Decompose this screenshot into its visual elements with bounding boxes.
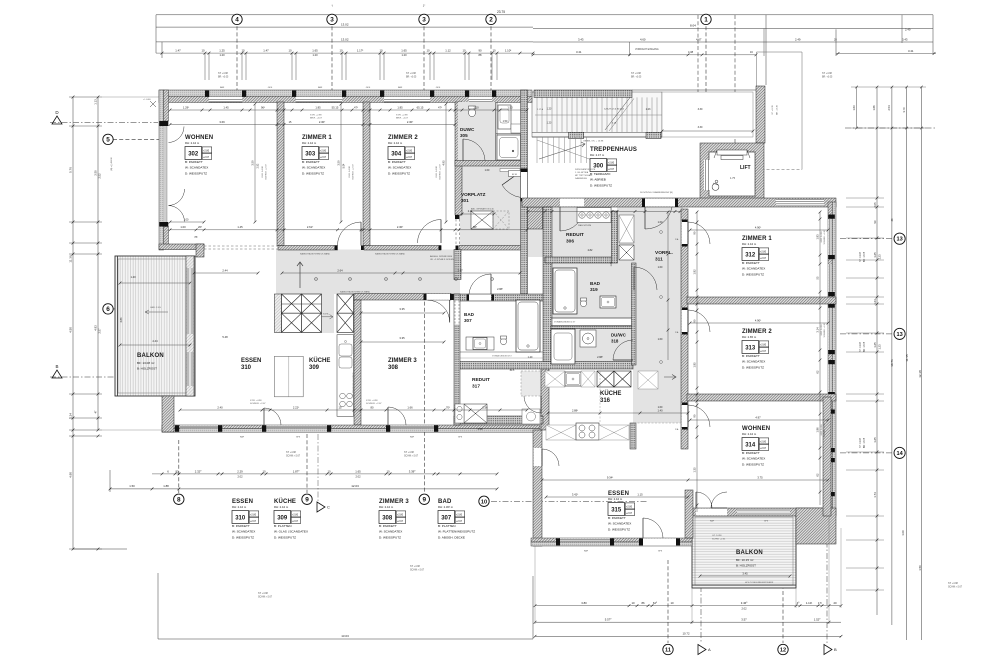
svg-text:5.76: 5.76 — [69, 167, 73, 173]
svg-text:13: 13 — [896, 237, 902, 243]
svg-text:+2.80: +2.80 — [626, 505, 633, 508]
reduit 306 gray zone — [528, 207, 612, 257]
svg-text:3.30: 3.30 — [698, 126, 703, 129]
cluster v-wall 306-vorpl311 — [612, 211, 618, 263]
kitchen 316 island with stove — [546, 425, 576, 440]
svg-text:1.10¹: 1.10¹ — [806, 601, 812, 605]
svg-text:11.36: 11.36 — [69, 255, 73, 263]
svg-text:1.50: 1.50 — [503, 120, 508, 123]
svg-text:8: 8 — [177, 497, 181, 504]
svg-text:D: WEISSPUTZ: D: WEISSPUTZ — [608, 527, 630, 531]
svg-text:3.46º: 3.46º — [741, 601, 747, 605]
svg-text:1.82: 1.82 — [693, 269, 697, 275]
svg-text:GER: 1.5%: GER: 1.5% — [150, 307, 161, 309]
svg-text:12.03: 12.03 — [351, 484, 359, 488]
essen 315 dims — [546, 496, 688, 498]
svg-text:17¹: 17¹ — [818, 601, 822, 605]
reduit 317 shelf — [464, 404, 487, 423]
door jamb black caps — [335, 246, 338, 251]
svg-text:SCHW.R. +2.67: SCHW.R. +2.67 — [250, 403, 266, 405]
svg-text:W: SCANDATEX: W: SCANDATEX — [185, 166, 208, 170]
door arc essen315 west — [542, 449, 559, 466]
svg-text:HOLZ-DIELENBLENDWERK: HOLZ-DIELENBLENDWERK — [745, 582, 774, 584]
svg-text:9: 9 — [305, 497, 309, 504]
treppenhaus east wall — [756, 86, 765, 143]
svg-text:LIFT: LIFT — [740, 165, 751, 171]
svg-text:10: 10 — [379, 49, 383, 53]
cluster h-wall duwc-kueche316 — [458, 362, 633, 370]
washer boxes reduit 317 — [522, 409, 540, 424]
svg-text:2.88º: 2.88º — [597, 355, 603, 359]
svg-text:ST: +4.98: ST: +4.98 — [631, 73, 641, 75]
svg-text:D: WEISSPUTZ: D: WEISSPUTZ — [742, 462, 764, 466]
svg-text:ESSEN: ESSEN — [241, 358, 261, 364]
svg-text:2.44: 2.44 — [152, 339, 158, 343]
svg-text:1.50: 1.50 — [129, 484, 135, 488]
svg-text:ST. +9.30: ST. +9.30 — [772, 105, 774, 115]
svg-text:MIT TRITTSCHALL: MIT TRITTSCHALL — [575, 174, 593, 177]
svg-text:D: WEISSPUTZ: D: WEISSPUTZ — [742, 272, 764, 276]
svg-text:12: 12 — [780, 648, 786, 654]
svg-text:2.30º: 2.30º — [319, 120, 325, 124]
svg-text:309: 309 — [309, 365, 320, 371]
svg-text:+2.80: +2.80 — [760, 343, 767, 346]
svg-text:13.02: 13.02 — [341, 37, 349, 41]
svg-text:4.67: 4.67 — [696, 37, 702, 41]
svg-text:10: 10 — [262, 469, 266, 473]
svg-text:ZIMMER 1: ZIMMER 1 — [302, 135, 332, 141]
svg-text:11.15: 11.15 — [905, 354, 909, 362]
svg-text:90: 90 — [478, 49, 482, 53]
svg-text:10.72: 10.72 — [683, 632, 690, 636]
top dimension frame — [156, 14, 933, 16]
svg-text:ST: +4.98: ST: +4.98 — [258, 593, 268, 595]
svg-text:RH: 2.44 m: RH: 2.44 m — [185, 141, 200, 145]
kitchen nook gray zone 309 — [276, 250, 334, 334]
west wall main block — [159, 90, 164, 250]
svg-text:1.85: 1.85 — [397, 105, 403, 109]
svg-text:BAD: BAD — [464, 312, 475, 317]
shower duwc 318 — [580, 330, 596, 347]
svg-text:1.13: 1.13 — [94, 99, 98, 105]
svg-text:D: WEISSPUTZ: D: WEISSPUTZ — [232, 535, 254, 539]
svg-text:1.82: 1.82 — [610, 261, 613, 266]
svg-text:314: 314 — [745, 442, 756, 448]
svg-text:D: WEISSPUTZ: D: WEISSPUTZ — [388, 171, 410, 175]
svg-text:BR: +3.05: BR: +3.05 — [218, 77, 229, 79]
svg-text:↑: ↑ — [331, 3, 333, 8]
svg-text:61.R. 14.98: 61.R. 14.98 — [349, 166, 351, 178]
treppenhaus west wall — [521, 90, 528, 294]
svg-text:1.40: 1.40 — [657, 408, 663, 412]
svg-text:3.80: 3.80 — [581, 601, 587, 605]
svg-text:SCHW: +2.67: SCHW: +2.67 — [948, 587, 963, 589]
svg-text:+2.67: +2.67 — [292, 520, 299, 523]
section marker B left — [52, 370, 62, 378]
svg-text:26º: 26º — [198, 225, 202, 229]
double balcony door wohnen 314 — [696, 492, 712, 508]
x-box corridor end 311 — [619, 245, 634, 260]
svg-text:BR.R. +2.07: BR.R. +2.07 — [396, 118, 409, 120]
door arcs right wing rooms — [688, 222, 710, 244]
svg-text:ZIMMER 2: ZIMMER 2 — [388, 135, 418, 141]
reduit 317 wardrobe gray strip — [521, 371, 541, 396]
duwc 305 partition line — [495, 102, 497, 161]
south wall wohnen 314 — [688, 508, 829, 516]
svg-text:1.88: 1.88 — [163, 484, 169, 488]
duwc 305 door arc — [462, 139, 464, 161]
svg-text:BR: +3.05: BR: +3.05 — [406, 77, 417, 79]
svg-text:2.82: 2.82 — [588, 249, 593, 252]
svg-text:10: 10 — [288, 49, 292, 53]
svg-text:RH: 2.44 m: RH: 2.44 m — [274, 505, 289, 509]
svg-text:61.R. 14.98: 61.R. 14.98 — [262, 166, 264, 178]
svg-text:ZIMMER 1: ZIMMER 1 — [742, 236, 772, 242]
svg-text:47º: 47º — [438, 105, 442, 109]
svg-text:10: 10 — [241, 49, 245, 53]
svg-text:+2.67: +2.67 — [456, 520, 463, 523]
second dashed axis near grid 1 — [734, 15, 736, 144]
svg-text:1.83: 1.83 — [816, 234, 820, 240]
svg-text:13: 13 — [896, 332, 902, 338]
svg-text:55.15: 55.15 — [332, 105, 339, 109]
svg-text:B: PARKETT: B: PARKETT — [742, 261, 760, 265]
svg-text:4.93: 4.93 — [94, 325, 98, 331]
svg-text:86: 86 — [641, 601, 645, 605]
east wall right wing — [828, 202, 832, 516]
svg-text:61.R. 14.98: 61.R. 14.98 — [821, 231, 823, 243]
svg-text:KABELTRAGSYSTEM UK WAND: KABELTRAGSYSTEM UK WAND — [375, 253, 406, 256]
north wall main block — [159, 90, 532, 96]
svg-text:1.23: 1.23 — [878, 344, 882, 350]
svg-text:+2.80: +2.80 — [456, 513, 463, 516]
svg-text:ST.R. +4.98: ST.R. +4.98 — [366, 400, 378, 402]
grid circle 6 — [113, 308, 190, 310]
svg-text:1.60: 1.60 — [658, 266, 663, 269]
svg-text:61.R. 14.98: 61.R. 14.98 — [821, 424, 823, 436]
corridor-cluster stub wall — [454, 250, 461, 280]
svg-text:W: SCANDATEX: W: SCANDATEX — [742, 360, 765, 364]
svg-text:+/- 0.00: +/- 0.00 — [143, 99, 151, 101]
svg-text:1.85: 1.85 — [315, 105, 321, 109]
svg-text:4.90º: 4.90º — [755, 318, 761, 322]
essen 315 south wall — [531, 538, 692, 542]
bathtub bad 319 — [553, 268, 577, 314]
door arc zimmer3 north — [449, 300, 451, 322]
svg-text:RAF: RAF — [220, 86, 225, 89]
svg-text:GFS: GFS — [366, 87, 371, 89]
svg-text:123.27 cm 4 St 3.24: 123.27 cm 4 St 3.24 — [604, 108, 624, 111]
svg-text:GFS: GFS — [658, 551, 663, 553]
wall kueche-zimmer3 — [354, 300, 361, 425]
door arc essen south — [264, 408, 281, 425]
svg-text:1.45: 1.45 — [223, 105, 229, 109]
svg-text:KABELTRAGSYSTEM UK WAND: KABELTRAGSYSTEM UK WAND — [340, 291, 371, 294]
svg-text:ZIMMER 3: ZIMMER 3 — [379, 499, 409, 505]
svg-text:KÜ/TA: KÜ/TA — [323, 313, 329, 316]
svg-text:1.47: 1.47 — [175, 49, 181, 53]
svg-text:1.60: 1.60 — [658, 338, 663, 341]
section marker C bottom — [317, 502, 325, 512]
svg-text:B: PARKETT: B: PARKETT — [388, 160, 406, 164]
svg-text:B: PARKETT: B: PARKETT — [742, 354, 760, 358]
svg-text:4.90º: 4.90º — [755, 225, 761, 229]
svg-text:B: HOLZROST: B: HOLZROST — [736, 564, 756, 568]
svg-text:DICHTUNG / BRANDRIEGNZ (B): DICHTUNG / BRANDRIEGNZ (B) — [640, 191, 673, 194]
svg-text:KABELTRAGSYSTEM UK WAND: KABELTRAGSYSTEM UK WAND — [300, 253, 331, 256]
svg-text:GFS: GFS — [296, 437, 301, 439]
svg-text:RH: 2.44 m: RH: 2.44 m — [302, 141, 317, 145]
svg-text:3: 3 — [422, 17, 426, 24]
svg-text:1.65: 1.65 — [873, 252, 877, 258]
svg-text:2.61º: 2.61º — [307, 225, 313, 229]
duwc 305 vanity — [498, 105, 511, 129]
balcony upper left deck — [115, 256, 195, 396]
svg-text:61.R. 14.98: 61.R. 14.98 — [436, 166, 438, 178]
svg-text:ZWISCHENPODESTE: ZWISCHENPODESTE — [575, 169, 596, 171]
svg-text:2.30º: 2.30º — [407, 120, 413, 124]
svg-text:4.38: 4.38 — [688, 50, 694, 54]
svg-text:1.87º: 1.87º — [293, 469, 299, 473]
svg-text:+2.80: +2.80 — [292, 513, 299, 516]
svg-text:14: 14 — [896, 451, 903, 457]
svg-text:317: 317 — [472, 384, 480, 390]
svg-text:3.45: 3.45 — [742, 571, 748, 575]
svg-text:5: 5 — [106, 137, 110, 144]
svg-text:BALKON: BALKON — [736, 550, 763, 556]
kitchen 309 cooktop — [340, 393, 346, 399]
svg-text:96º: 96º — [261, 105, 265, 109]
svg-text:3.43: 3.43 — [902, 37, 908, 41]
corridor dim line with sockets — [282, 272, 520, 274]
svg-text:10: 10 — [481, 499, 487, 505]
svg-text:W: SCANDATEX: W: SCANDATEX — [302, 166, 325, 170]
svg-text:BR. +9.30: BR. +9.30 — [777, 104, 779, 115]
svg-text:D: WEISSPUTZ: D: WEISSPUTZ — [274, 535, 296, 539]
svg-text:3.39º: 3.39º — [409, 469, 415, 473]
svg-text:(B) +(-) W106: (B) +(-) W106 — [111, 157, 113, 171]
svg-text:W: ABRIEB: W: ABRIEB — [590, 178, 606, 182]
svg-text:HOLZTRAEGER UK WAND: HOLZTRAEGER UK WAND — [352, 372, 355, 397]
kitchen 309 sink — [339, 344, 352, 356]
svg-text:DU/WC: DU/WC — [611, 333, 627, 338]
svg-text:3.70: 3.70 — [902, 107, 906, 113]
svg-text:+2.67: +2.67 — [203, 156, 210, 159]
svg-text:3.69: 3.69 — [219, 120, 225, 124]
svg-text:312: 312 — [745, 252, 756, 258]
svg-text:WASCHTURM: WASCHTURM — [578, 224, 591, 227]
svg-text:2.22º: 2.22º — [293, 405, 299, 409]
dashed kitchen boundary lines 316 — [599, 371, 601, 423]
svg-text:10: 10 — [339, 49, 343, 53]
svg-text:VORPL.: VORPL. — [655, 250, 673, 256]
svg-text:BALKON: BALKON — [137, 353, 164, 359]
svg-text:VORABKLEBUNG 4 KT: VORABKLEBUNG 4 KT — [554, 321, 576, 324]
svg-text:1.60: 1.60 — [658, 221, 663, 224]
zimmer3 north wall — [354, 294, 451, 301]
svg-text:318: 318 — [611, 339, 619, 344]
svg-text:1.17³: 1.17³ — [357, 49, 363, 53]
svg-text:RH: 2.44 m: RH: 2.44 m — [232, 505, 247, 509]
svg-text:1.12: 1.12 — [445, 49, 451, 53]
svg-text:1.25: 1.25 — [219, 49, 225, 53]
section marker D left — [52, 116, 62, 124]
svg-text:W: SCANDATEX: W: SCANDATEX — [379, 530, 402, 534]
door arc treppenhaus to corridor — [560, 207, 584, 231]
svg-text:4: 4 — [235, 17, 239, 24]
left dimension frame — [72, 97, 74, 549]
svg-text:BR: 13.65: BR: 13.65 — [864, 437, 866, 448]
svg-text:70º: 70º — [446, 405, 450, 409]
svg-text:2.54: 2.54 — [887, 105, 891, 111]
svg-text:W: SCANDATEX: W: SCANDATEX — [232, 530, 255, 534]
svg-text:SCHW.K. +2.07: SCHW.K. +2.07 — [352, 164, 354, 180]
svg-text:4.97: 4.97 — [755, 415, 761, 419]
svg-text:TREPPENHAUS: TREPPENHAUS — [590, 147, 637, 153]
svg-text:5.57º: 5.57º — [605, 618, 611, 622]
svg-text:D: WEISSPUTZ: D: WEISSPUTZ — [302, 171, 324, 175]
svg-text:BR: +3.05: BR: +3.05 — [822, 77, 833, 79]
svg-text:1.66: 1.66 — [872, 105, 876, 111]
svg-text:4.90: 4.90 — [69, 472, 73, 478]
svg-text:GT: 14.98: GT: 14.98 — [712, 535, 722, 537]
svg-text:3.41: 3.41 — [908, 49, 914, 53]
svg-text:9.34º: 9.34º — [607, 475, 613, 479]
svg-text:1.00: 1.00 — [901, 530, 905, 536]
right wing interior dims — [696, 212, 698, 512]
svg-text:10.71: 10.71 — [890, 359, 894, 367]
svg-text:KÜCHE: KÜCHE — [309, 357, 330, 364]
svg-text:+2.67: +2.67 — [608, 168, 615, 171]
svg-text:BR.R. +2.07: BR.R. +2.07 — [310, 118, 323, 120]
svg-text:6: 6 — [106, 306, 110, 313]
svg-text:2.49: 2.49 — [905, 28, 911, 32]
svg-text:KÜCHE: KÜCHE — [600, 390, 621, 397]
cluster bottom wall reduit317 — [454, 416, 543, 424]
door arc vorpl to bad319 — [634, 267, 657, 290]
svg-text:GFS: GFS — [458, 437, 463, 439]
svg-text:REDUIT: REDUIT — [566, 232, 584, 238]
grid circles 13 13 14 right — [840, 238, 893, 240]
svg-text:1.29º: 1.29º — [183, 105, 189, 109]
svg-text:80: 80 — [371, 405, 374, 409]
svg-text:10: 10 — [201, 49, 205, 53]
svg-text:RH: 2.44 m: RH: 2.44 m — [742, 432, 757, 436]
svg-text:+2.67: +2.67 — [397, 520, 404, 523]
vorplatz 301 gray zone — [460, 166, 527, 246]
svg-text:SCHW: +2.67: SCHW: +2.67 — [410, 570, 425, 572]
svg-text:1: 1 — [704, 17, 708, 24]
svg-text:1.10³: 1.10³ — [505, 49, 511, 53]
cluster v-wall 319-vorpl311 — [632, 263, 637, 365]
svg-text:A: A — [708, 647, 711, 652]
wardrobe x-box corridor 311 south — [638, 371, 658, 389]
svg-text:2.05: 2.05 — [873, 202, 877, 208]
svg-text:B: B — [834, 647, 837, 652]
stair landing white — [662, 92, 753, 137]
washing machines reduit 306 — [577, 208, 611, 223]
svg-text:+2.80: +2.80 — [203, 149, 210, 152]
svg-text:2.29: 2.29 — [237, 469, 243, 473]
svg-text:2.64: 2.64 — [337, 268, 343, 272]
dashed axis x698 — [697, 15, 699, 92]
svg-text:1.64: 1.64 — [873, 299, 877, 305]
svg-text:ST.R. +4.98: ST.R. +4.98 — [250, 400, 262, 402]
duwc 305 south wall — [455, 161, 521, 167]
svg-text:1.23: 1.23 — [878, 254, 882, 260]
svg-text:11: 11 — [665, 648, 671, 654]
bottom-left frame corner — [157, 573, 159, 639]
fixture small sink vorplatz — [500, 169, 520, 172]
svg-text:1.74: 1.74 — [873, 492, 877, 498]
svg-text:3.50: 3.50 — [251, 160, 255, 166]
grid circle 5 — [113, 138, 160, 140]
svg-text:2: 2 — [489, 17, 493, 24]
svg-text:2.02: 2.02 — [237, 475, 243, 479]
svg-text:13.02: 13.02 — [341, 23, 349, 27]
interior dim left wing lower — [180, 409, 527, 411]
south wall wohnen — [159, 244, 204, 250]
zimmer 2 313 dim — [690, 322, 828, 324]
zimmer 1 312 dim — [690, 229, 828, 231]
svg-text:1.66: 1.66 — [407, 405, 413, 409]
double door arc west wall — [169, 189, 185, 206]
svg-text:315: 315 — [611, 507, 622, 513]
svg-text:ST: +4.98: ST: +4.98 — [286, 452, 296, 454]
svg-text:VORABKLEBUNG 4KT: VORABKLEBUNG 4KT — [492, 355, 512, 358]
svg-text:304: 304 — [391, 151, 402, 157]
svg-text:1.20: 1.20 — [219, 53, 225, 57]
cluster h-wall bad319-duwc318 — [551, 317, 633, 319]
svg-text:UK +2.30³ AB F. BODEN: UK +2.30³ AB F. BODEN — [430, 258, 454, 261]
wall zimmer1-zimmer2 right wing — [687, 297, 836, 304]
svg-text:W: SCANDATEX: W: SCANDATEX — [742, 457, 765, 461]
svg-text:1.23: 1.23 — [646, 108, 651, 111]
svg-text:10: 10 — [492, 49, 496, 53]
svg-text:10: 10 — [426, 49, 430, 53]
svg-text:ST: +4.98: ST: +4.98 — [410, 566, 420, 568]
svg-text:47º: 47º — [354, 105, 358, 109]
essen 310 table — [274, 356, 303, 397]
svg-text:1.65: 1.65 — [401, 49, 407, 53]
svg-text:12.18: 12.18 — [918, 370, 922, 378]
svg-text:+2.67: +2.67 — [760, 350, 767, 353]
cluster h-wall corridor-bad307 — [454, 294, 545, 301]
svg-text:1. UG: ATTIKA: 1. UG: ATTIKA — [575, 171, 589, 174]
bathtub bad 307 — [516, 300, 540, 352]
wheelchair symbol lift — [712, 184, 719, 191]
in-room vertical dim columns top rooms — [254, 104, 256, 222]
svg-text:ST: +4.98: ST: +4.98 — [218, 73, 228, 75]
svg-text:2.52: 2.52 — [98, 173, 102, 179]
svg-text:B: PARKETT: B: PARKETT — [608, 516, 626, 520]
svg-text:B: PLATTEN: B: PLATTEN — [438, 524, 455, 528]
svg-text:319: 319 — [590, 287, 598, 292]
plusminus marker — [150, 101, 156, 107]
svg-text:RAF: RAF — [318, 86, 323, 89]
west wall lower corner — [162, 396, 174, 432]
svg-text:1.45: 1.45 — [237, 225, 243, 229]
dash-dot line right upper — [845, 127, 935, 129]
interior dim row top rooms — [170, 109, 527, 111]
svg-text:DUWC: DUWC — [460, 127, 475, 132]
door arc zimmer2 entry — [440, 220, 442, 244]
svg-text:+2.67: +2.67 — [760, 257, 767, 260]
svg-text:10: 10 — [327, 469, 331, 473]
svg-text:2.88º: 2.88º — [497, 287, 503, 291]
svg-text:1.63: 1.63 — [852, 105, 856, 111]
svg-text:305: 305 — [460, 133, 468, 138]
